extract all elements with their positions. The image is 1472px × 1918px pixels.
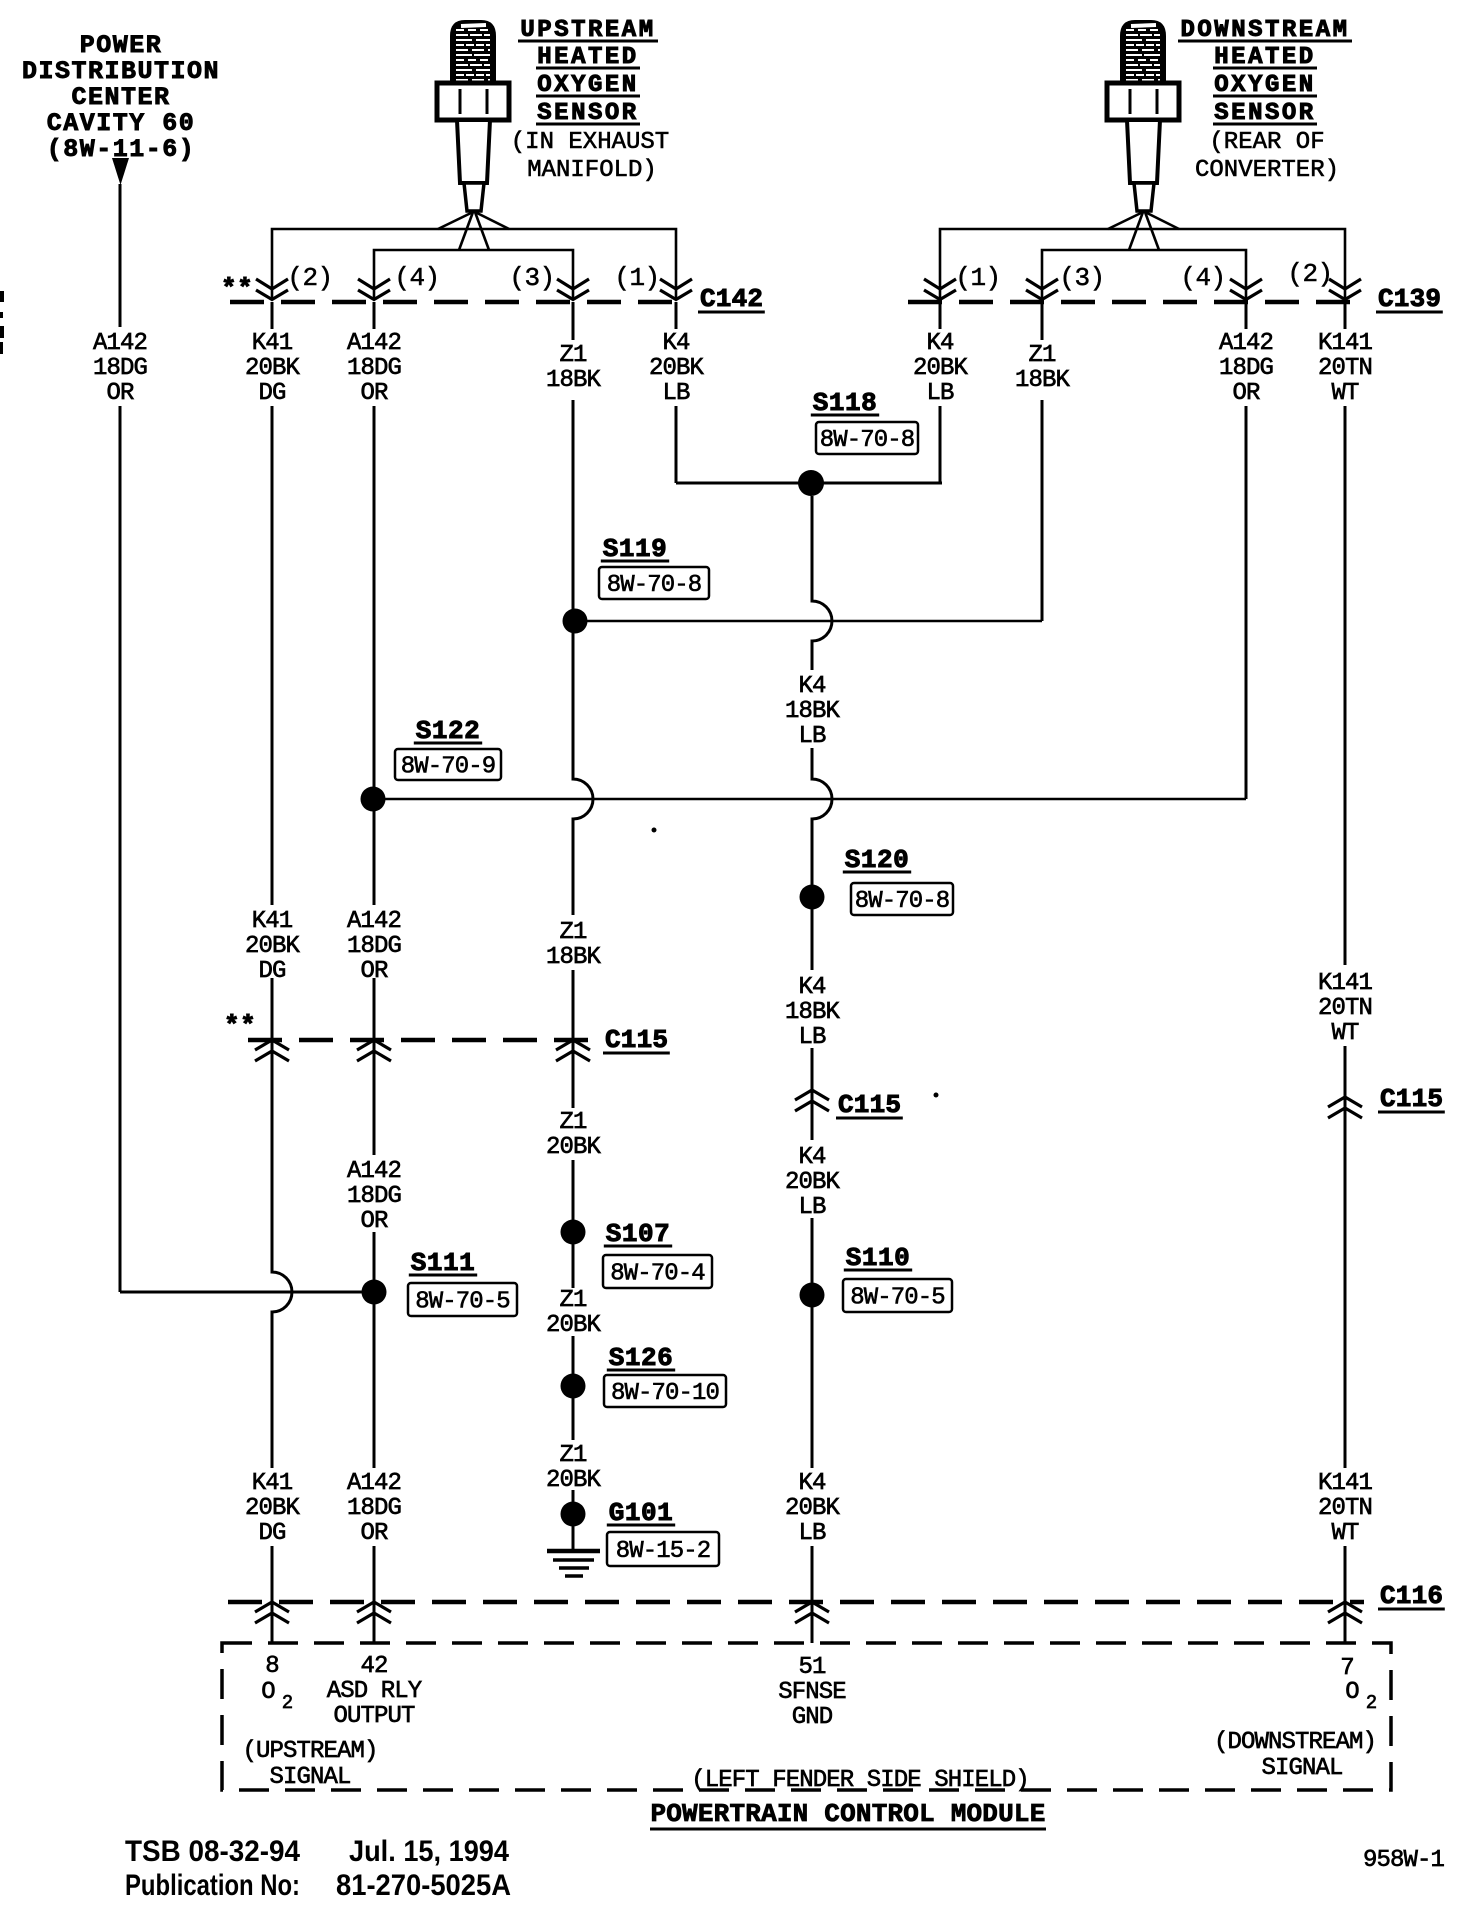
svg-text:2: 2 (1366, 1692, 1377, 1714)
svg-text:SIGNAL: SIGNAL (1261, 1755, 1342, 1782)
svg-text:K4: K4 (798, 673, 826, 700)
powertrain control module (PCM) dashed box (222, 1643, 1391, 1794)
svg-text:K4: K4 (926, 330, 954, 357)
svg-text:OR: OR (360, 1208, 388, 1235)
splice S126 (561, 1343, 727, 1407)
svg-text:18DG: 18DG (347, 933, 401, 960)
wire K4 20BK LB (downstream pin 1) (913, 302, 969, 483)
svg-text:20TN: 20TN (1318, 355, 1372, 382)
svg-text:8W-70-8: 8W-70-8 (607, 572, 702, 599)
svg-text:20BK: 20BK (546, 1134, 602, 1161)
svg-text:(1): (1) (955, 263, 1000, 293)
svg-text:8W-70-8: 8W-70-8 (855, 888, 950, 915)
svg-text:POWER: POWER (80, 31, 163, 60)
splice S110 (800, 1243, 953, 1312)
wire A142 18DG OR (upstream) (347, 302, 401, 1643)
svg-text:A142: A142 (347, 330, 401, 357)
svg-text:18DG: 18DG (347, 1183, 401, 1210)
svg-text:OR: OR (360, 1520, 388, 1547)
svg-text:GND: GND (792, 1704, 833, 1731)
svg-text:K141: K141 (1318, 330, 1373, 357)
connector C115 (row) (224, 1011, 670, 1061)
svg-text:C115: C115 (838, 1090, 901, 1120)
svg-text:8W-70-8: 8W-70-8 (820, 427, 915, 454)
svg-text:20BK: 20BK (245, 355, 301, 382)
svg-text:51: 51 (798, 1654, 826, 1681)
splice S118 (676, 388, 942, 496)
downstream heated oxygen sensor (1107, 20, 1179, 211)
svg-text:8: 8 (265, 1653, 279, 1680)
wire K41 20BK DG (245, 302, 301, 1643)
svg-text:K4: K4 (798, 1144, 826, 1171)
wire K4 20BK LB (upstream pin 1) (649, 302, 705, 483)
svg-text:K141: K141 (1318, 970, 1373, 997)
svg-text:OR: OR (360, 380, 388, 407)
label: DOWNSTREAM HEATED OXYGEN SENSOR (REAR OF CONVERTER) (1178, 17, 1352, 184)
svg-text:18BK: 18BK (1015, 367, 1071, 394)
wire: downstream sensor fan-out (940, 212, 1345, 300)
svg-text:WT: WT (1331, 1020, 1359, 1047)
svg-text:18DG: 18DG (347, 1495, 401, 1522)
svg-text:(4): (4) (394, 263, 439, 293)
svg-text:20BK: 20BK (913, 355, 969, 382)
footer TSB note (125, 1835, 511, 1902)
svg-text:18BK: 18BK (546, 367, 602, 394)
svg-text:958W-1: 958W-1 (1363, 1847, 1445, 1874)
svg-text:(3): (3) (1059, 263, 1104, 293)
splice S111 (120, 1248, 517, 1316)
label: UPSTREAM HEATED OXYGEN SENSOR (IN EXHAUST MANIFOLD) (511, 17, 669, 184)
svg-text:OUTPUT: OUTPUT (333, 1703, 415, 1730)
wire K4 18BK LB (trunk) (785, 496, 841, 1643)
svg-text:LB: LB (798, 1194, 826, 1221)
svg-text:(DOWNSTREAM): (DOWNSTREAM) (1214, 1729, 1376, 1756)
svg-text:(UPSTREAM): (UPSTREAM) (242, 1738, 377, 1765)
node: POWER DISTRIBUTION CENTER CAVITY 60 (8W-11-6) (22, 31, 220, 164)
svg-text:LB: LB (798, 1520, 826, 1547)
connector C142 (221, 263, 765, 314)
svg-text:**: ** (221, 274, 253, 304)
svg-text:(REAR OF: (REAR OF (1209, 129, 1324, 156)
svg-text:WT: WT (1331, 1520, 1359, 1547)
svg-text:CENTER: CENTER (71, 83, 170, 112)
svg-text:20BK: 20BK (785, 1495, 841, 1522)
svg-text:OR: OR (106, 380, 134, 407)
svg-text:ASD RLY: ASD RLY (327, 1678, 422, 1705)
svg-text:LB: LB (798, 723, 826, 750)
splice S122 (361, 716, 1247, 812)
svg-text:A142: A142 (347, 1158, 401, 1185)
svg-text:Z1: Z1 (559, 1442, 587, 1469)
svg-text:18DG: 18DG (347, 355, 401, 382)
svg-text:8W-70-10: 8W-70-10 (611, 1380, 719, 1407)
svg-text:Z1: Z1 (1028, 342, 1056, 369)
scan edge marks (0, 291, 4, 302)
splice S119 (563, 534, 1043, 634)
svg-text:18BK: 18BK (785, 999, 841, 1026)
svg-text:8W-15-2: 8W-15-2 (616, 1538, 711, 1565)
svg-text:Publication No:: Publication No: (125, 1869, 300, 1902)
svg-text:(2): (2) (287, 263, 332, 293)
svg-text:18DG: 18DG (93, 355, 147, 382)
svg-text:C115: C115 (605, 1025, 668, 1055)
svg-text:42: 42 (360, 1653, 387, 1680)
ground G101 (547, 1498, 719, 1576)
svg-text:C142: C142 (700, 284, 763, 314)
svg-text:K4: K4 (662, 330, 690, 357)
splice S120 (800, 845, 954, 915)
svg-text:8W-70-9: 8W-70-9 (401, 754, 496, 781)
svg-text:O: O (1345, 1679, 1359, 1706)
svg-text:C139: C139 (1378, 284, 1441, 314)
wire Z1 18BK / Z1 20BK (upstream ground wire) (546, 302, 602, 1549)
svg-text:Z1: Z1 (559, 919, 587, 946)
svg-text:20BK: 20BK (245, 1495, 301, 1522)
connector C139 (908, 259, 1443, 314)
svg-text:2: 2 (282, 1692, 293, 1714)
svg-text:Z1: Z1 (559, 342, 587, 369)
svg-text:WT: WT (1331, 380, 1359, 407)
svg-text:20BK: 20BK (546, 1467, 602, 1494)
connector C116 (228, 1581, 1445, 1623)
wire A142 18DG OR (downstream pin 4) (1219, 302, 1273, 799)
svg-text:8W-70-5: 8W-70-5 (415, 1289, 510, 1316)
wire Z1 18BK (downstream pin 3) (1015, 302, 1071, 621)
svg-text:K141: K141 (1318, 1470, 1373, 1497)
svg-text:(2): (2) (1287, 259, 1332, 289)
svg-text:A142: A142 (347, 1470, 401, 1497)
svg-text:18BK: 18BK (785, 698, 841, 725)
wire: upstream sensor fan-out (272, 212, 676, 300)
svg-text:81-270-5025A: 81-270-5025A (336, 1869, 511, 1902)
svg-text:Jul. 15, 1994: Jul. 15, 1994 (349, 1835, 509, 1868)
svg-text:A142: A142 (93, 330, 147, 357)
connector C115 (K4 wire) (795, 1090, 903, 1120)
svg-text:20BK: 20BK (245, 933, 301, 960)
svg-text:8W-70-4: 8W-70-4 (610, 1261, 705, 1288)
svg-text:MANIFOLD): MANIFOLD) (527, 157, 657, 184)
svg-text:18BK: 18BK (546, 944, 602, 971)
svg-text:Z1: Z1 (559, 1109, 587, 1136)
svg-text:CAVITY 60: CAVITY 60 (47, 109, 196, 138)
scan speck (652, 828, 657, 833)
svg-text:LB: LB (798, 1024, 826, 1051)
svg-text:20BK: 20BK (785, 1169, 841, 1196)
svg-text:C116: C116 (1380, 1581, 1443, 1611)
svg-text:A142: A142 (347, 908, 401, 935)
svg-text:K4: K4 (798, 974, 826, 1001)
svg-text:OR: OR (1232, 380, 1260, 407)
arrow from power distribution center (112, 158, 129, 185)
splice S107 (561, 1219, 713, 1288)
svg-text:DISTRIBUTION: DISTRIBUTION (22, 57, 220, 86)
svg-text:20TN: 20TN (1318, 1495, 1372, 1522)
svg-text:8W-70-5: 8W-70-5 (850, 1285, 945, 1312)
svg-text:POWERTRAIN CONTROL MODULE: POWERTRAIN CONTROL MODULE (650, 1799, 1045, 1829)
svg-text:CONVERTER): CONVERTER) (1195, 157, 1339, 184)
svg-text:(4): (4) (1180, 263, 1225, 293)
svg-text:LB: LB (662, 380, 690, 407)
svg-text:C115: C115 (1380, 1084, 1443, 1114)
wire A142 18DG OR (from power distribution center) (119, 184, 122, 327)
svg-text:TSB 08-32-94: TSB 08-32-94 (125, 1835, 300, 1868)
svg-text:18DG: 18DG (1219, 355, 1273, 382)
svg-text:20TN: 20TN (1318, 995, 1372, 1022)
svg-text:(1): (1) (614, 263, 659, 293)
svg-text:K41: K41 (252, 330, 293, 357)
svg-text:DG: DG (258, 380, 285, 407)
svg-text:(3): (3) (509, 263, 554, 293)
svg-text:20BK: 20BK (546, 1312, 602, 1339)
svg-text:(LEFT FENDER SIDE SHIELD): (LEFT FENDER SIDE SHIELD) (691, 1767, 1029, 1794)
svg-text:Z1: Z1 (559, 1287, 587, 1314)
svg-text:A142: A142 (1219, 330, 1273, 357)
svg-text:K41: K41 (252, 908, 293, 935)
wire K141 20TN WT (1318, 302, 1373, 1643)
svg-text:O: O (261, 1679, 275, 1706)
upstream heated oxygen sensor (437, 20, 509, 211)
svg-text:K41: K41 (252, 1470, 293, 1497)
svg-text:K4: K4 (798, 1470, 826, 1497)
svg-text:SIGNAL: SIGNAL (269, 1764, 350, 1791)
svg-text:LB: LB (926, 380, 954, 407)
svg-text:20BK: 20BK (649, 355, 705, 382)
svg-text:(IN EXHAUST: (IN EXHAUST (511, 129, 669, 156)
svg-text:7: 7 (1340, 1655, 1354, 1682)
svg-text:**: ** (224, 1011, 256, 1041)
svg-text:DG: DG (258, 1520, 285, 1547)
connector C115 (K141 wire) (1328, 1084, 1445, 1118)
svg-text:SFNSE: SFNSE (778, 1679, 846, 1706)
